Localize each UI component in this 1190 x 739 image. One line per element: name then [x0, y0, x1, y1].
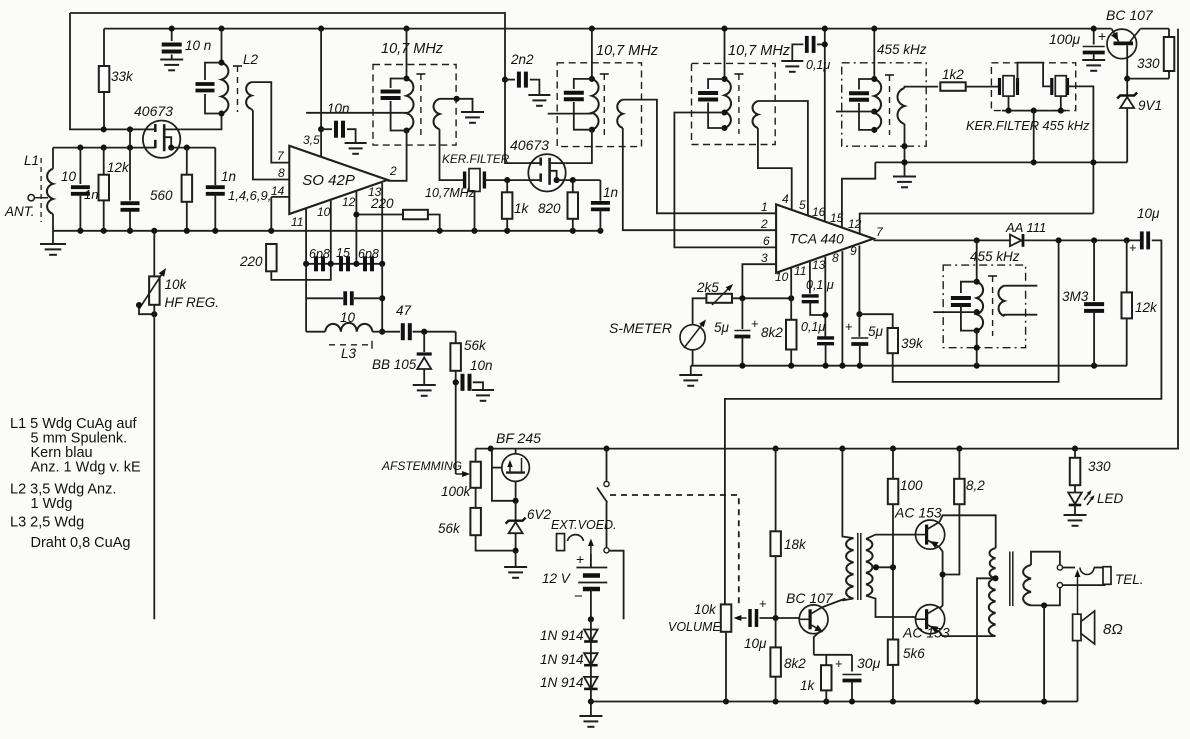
inductor IFT3 primary — [725, 79, 732, 128]
resistor 18k — [770, 531, 781, 556]
wire 10n decoupling lead — [171, 29, 173, 41]
label pin 10 tca — [775, 270, 789, 284]
wire 100 column — [892, 449, 894, 479]
svg-text:1k2: 1k2 — [942, 67, 964, 82]
capacitor 10u det — [1142, 231, 1148, 249]
svg-text:8k2: 8k2 — [761, 325, 783, 340]
transistor BC107 regulator — [1107, 29, 1141, 59]
svg-text:13: 13 — [812, 258, 826, 272]
ground IFT1 secondary — [461, 110, 484, 123]
arrow AFSTEMMING — [456, 471, 470, 477]
svg-text:2: 2 — [389, 164, 397, 178]
label 100 — [900, 478, 923, 493]
wire 1n third top — [599, 180, 601, 201]
wire pin9 riser — [858, 246, 860, 337]
capacitor 3M3 — [1084, 304, 1104, 311]
svg-text:3: 3 — [761, 251, 768, 265]
junction 10n tap — [453, 379, 459, 385]
label 0,1u Vcc — [806, 58, 830, 72]
resistor 100 — [888, 479, 899, 504]
capacitor 1n input — [121, 203, 140, 210]
svg-text:10,7MHz: 10,7MHz — [425, 186, 476, 200]
core IFT1 — [416, 74, 425, 136]
label 18k — [784, 537, 807, 552]
resistor 8k2 smeter — [786, 320, 797, 350]
battery 12V — [574, 551, 607, 619]
ceramic filter 10.7MHz — [465, 169, 485, 192]
jack TEL break contact — [1080, 568, 1094, 575]
resistor 330 led — [1070, 458, 1081, 485]
junction zener top — [1124, 76, 1130, 82]
label 10,7MHz second — [596, 43, 659, 59]
junction battery bottom — [588, 616, 594, 622]
wire pin14 lead — [271, 196, 289, 198]
potentiometer 2k5 — [706, 294, 732, 303]
ground 455 secondary — [893, 165, 916, 188]
ground under 10n osc — [472, 388, 494, 401]
label 0,1u second — [801, 320, 825, 334]
svg-text:AFSTEMMING: AFSTEMMING — [381, 459, 462, 473]
potentiometer 100k — [470, 462, 481, 488]
junction filter bottoms — [1005, 108, 1063, 114]
wire HF pot top — [153, 231, 155, 277]
wire filter1 out — [484, 179, 530, 181]
wire 820 top — [572, 180, 574, 192]
label 10,7MHz third — [728, 43, 791, 59]
label TEL. — [1115, 572, 1144, 587]
core output transformer — [1010, 552, 1013, 607]
capacitor 0,1u Vcc — [807, 36, 814, 53]
wire IFT2 tap — [548, 113, 592, 115]
svg-text:−: − — [574, 588, 583, 605]
svg-text:4: 4 — [782, 192, 789, 206]
wire BC107 collector segment — [1141, 28, 1170, 30]
label 1N914 c — [540, 675, 584, 690]
label 8k2 smeter — [761, 325, 783, 340]
transistor BF245 — [502, 454, 530, 482]
resistor 5k6 — [888, 640, 899, 665]
IF can 10.7MHz second — [557, 63, 641, 147]
label AFSTEMMING — [381, 459, 462, 473]
wire IFT2 cap loop — [574, 79, 592, 89]
label pin 3 5 — [303, 133, 320, 147]
svg-text:10: 10 — [317, 205, 331, 219]
svg-text:330: 330 — [1137, 56, 1160, 71]
wire diode chain — [590, 619, 592, 701]
svg-text:12: 12 — [342, 195, 356, 209]
wire 1k2 to filter — [966, 86, 1000, 88]
wire pin16 riser — [824, 29, 826, 223]
wire Vcc bus — [104, 28, 1112, 30]
wire 1n first lead — [129, 129, 131, 200]
svg-text:1,4,6,9,: 1,4,6,9, — [228, 188, 271, 203]
inductor driver secondary — [866, 539, 873, 596]
svg-text:5μ: 5μ — [868, 324, 884, 339]
label 0,1 first — [806, 278, 834, 292]
svg-text:2k5: 2k5 — [696, 280, 719, 295]
wire drain row — [566, 179, 601, 181]
wire SO42P out — [388, 131, 407, 181]
resistor 12k — [99, 175, 110, 201]
junction 3,5 riser — [318, 126, 324, 132]
legend L1 line2 — [31, 431, 128, 447]
wire pin9 to 39k — [859, 314, 892, 328]
inductor 455 secondary — [897, 88, 904, 124]
label 8k2 audio — [784, 656, 806, 671]
label pin 7 SO42P — [277, 149, 285, 163]
wire detector right — [1025, 239, 1141, 241]
legend L1 line3 — [31, 445, 93, 461]
svg-text:Anz. 1 Wdg v. kE: Anz. 1 Wdg v. kE — [31, 460, 141, 476]
label 40673 second — [510, 137, 549, 153]
wire 5k6 bottom — [892, 665, 894, 702]
legend L3 line1 — [10, 515, 84, 531]
svg-text:10: 10 — [61, 169, 77, 184]
resistor 330 reg — [1164, 37, 1175, 71]
wire pin15 path — [842, 162, 875, 229]
IF can 455kHz second — [943, 265, 1025, 348]
wire 1k bottom — [506, 219, 508, 231]
svg-text:10k: 10k — [165, 277, 188, 292]
wire IFT1 sec top to ground — [440, 99, 473, 110]
junction 2k5 node — [739, 295, 794, 301]
wire L2 primary top to Vcc — [221, 29, 223, 63]
svg-text:10n: 10n — [470, 358, 493, 373]
label pins 1 4 6 9 — [228, 188, 271, 203]
svg-text:220: 220 — [370, 196, 394, 211]
resistor 820 — [568, 192, 579, 219]
svg-text:56k: 56k — [464, 338, 487, 353]
wire 47 to varicap node — [413, 331, 456, 333]
svg-text:560: 560 — [150, 188, 173, 203]
wire volume bottom — [725, 632, 727, 702]
wire pin10 riser — [790, 268, 792, 298]
resistor 56k tuning — [470, 508, 481, 535]
svg-text:KER.FILTER 455 kHz: KER.FILTER 455 kHz — [966, 118, 1090, 133]
capacitor 10 osc — [345, 291, 352, 305]
svg-text:455 kHz: 455 kHz — [877, 42, 927, 57]
wire 2n2 stub — [505, 79, 515, 81]
potentiometer 10k VOLUME — [721, 604, 732, 631]
resistor 12k — [1122, 292, 1133, 318]
ceramic resonator b — [1052, 76, 1068, 96]
wire osc row2 right — [354, 297, 382, 299]
wire L3 row right — [372, 331, 382, 333]
wire L3 row left — [306, 331, 325, 333]
wire IFT2 sec top to pin1 — [623, 100, 776, 214]
svg-text:5k6: 5k6 — [903, 646, 925, 661]
wire 5u agc bottom — [859, 345, 861, 366]
label 1k — [514, 201, 530, 216]
wire L2 cap loop bottom — [205, 94, 222, 114]
wire zener to wire A — [1126, 108, 1128, 162]
wire 2k5 node — [732, 297, 791, 299]
label pin 12 SO42P — [342, 195, 356, 209]
wire IFT1 cap loop — [391, 79, 407, 89]
wire 10n osc to ground — [473, 382, 483, 388]
svg-text:8k2: 8k2 — [784, 656, 806, 671]
label VOLUME — [668, 620, 721, 634]
resistor 1k mixer2 — [502, 192, 513, 219]
IF can 10.7MHz first — [373, 65, 456, 146]
label pin 8 SO42P — [278, 166, 285, 180]
svg-text:3M3: 3M3 — [1062, 289, 1089, 304]
resistor 39k — [888, 328, 899, 353]
label 1n gate2 — [221, 169, 236, 184]
wire IFT3 tap to pin6 — [674, 113, 776, 248]
wire 5u1 bottom — [741, 337, 743, 366]
wire IFT3 sec bottom to pin4 — [758, 128, 792, 210]
wire 10n mixer to ground — [347, 129, 356, 141]
diode 1N914 b — [584, 653, 598, 665]
svg-text:11: 11 — [291, 215, 303, 229]
junction 0,1 node — [822, 312, 828, 318]
wire filter1 bottom — [474, 191, 476, 230]
svg-text:10,7 MHz: 10,7 MHz — [728, 43, 791, 59]
speaker 8 ohm — [1073, 611, 1095, 644]
label plus 5u smeter — [751, 316, 759, 331]
wire 8,2 to emitters — [943, 504, 960, 574]
inductor L3 — [325, 323, 372, 332]
label 1n if — [603, 185, 618, 200]
wire node D drop — [381, 264, 383, 332]
svg-text:10 n: 10 n — [185, 38, 211, 53]
resistor 56k osc — [450, 343, 461, 371]
arrow HF REG wiper — [139, 268, 166, 309]
wire HF wiper loop — [139, 306, 154, 314]
wire 1k audio bottom — [825, 690, 827, 701]
resistor 560 — [182, 175, 193, 202]
capacitor 10u volume — [750, 609, 757, 627]
svg-text:8,2: 8,2 — [966, 478, 985, 493]
resistor 1k audio — [821, 665, 832, 690]
wire 1n first bottom — [129, 210, 131, 231]
label 560 — [150, 188, 173, 203]
wire 8k2 smeter bottom — [790, 350, 792, 366]
wire 30u top — [851, 655, 853, 672]
label 40673 first — [134, 103, 173, 119]
wire 2n2 to ground — [530, 80, 540, 93]
label pin 14 SO42P — [271, 184, 285, 198]
wire 455 tap — [836, 111, 874, 113]
label pin 15 — [830, 211, 844, 225]
svg-text:2n2: 2n2 — [510, 52, 534, 67]
wire +12V rail — [476, 29, 1178, 449]
svg-text:1 Wdg: 1 Wdg — [31, 496, 73, 512]
wire osc caps row — [306, 263, 382, 265]
wire 12k bottom — [103, 200, 105, 230]
label pin 6 — [763, 234, 770, 248]
svg-text:SO 42P: SO 42P — [302, 172, 355, 189]
svg-text:1n: 1n — [221, 169, 236, 184]
svg-text:39k: 39k — [901, 336, 924, 351]
label AC 153 lower — [902, 625, 950, 641]
meter S-METER — [680, 320, 706, 350]
label 12V — [542, 571, 572, 586]
inductor quad secondary — [998, 286, 1004, 316]
diode zener 9V1 — [1117, 93, 1137, 109]
junction pin9 node — [856, 311, 862, 317]
junction 455 primary — [871, 76, 877, 133]
wire 330 to led — [1074, 485, 1076, 492]
jack TEL lower contact — [1057, 583, 1062, 588]
capacitor quad tank — [951, 298, 971, 305]
wire IFT2 sec bottom to pin2 — [623, 128, 776, 230]
capacitor 15 — [341, 256, 348, 271]
capacitor 10n osc — [463, 374, 470, 391]
capacitor 10 — [71, 187, 90, 194]
wire IFT1 sec bottom to filter — [440, 129, 464, 180]
wire pin 3,5 riser — [320, 29, 322, 158]
svg-text:820: 820 — [538, 201, 561, 216]
wire coll1 path — [939, 515, 995, 548]
label 6p8 a — [309, 247, 330, 261]
label 8,2 — [966, 478, 985, 493]
wire 0,1u stub — [817, 43, 825, 45]
inductor quad primary — [977, 282, 983, 331]
wire 56k to tuning line — [455, 371, 457, 474]
wire 1k audio top — [825, 655, 827, 665]
label BB 105 — [372, 357, 417, 372]
svg-text:VOLUME: VOLUME — [668, 620, 721, 634]
label pin 3 — [761, 251, 768, 265]
wire 10p to ground bus — [79, 194, 81, 231]
resistor 1k2 — [940, 82, 965, 91]
legend L1 line4 — [31, 460, 141, 476]
wire IFT2 primary to drain — [566, 130, 592, 163]
junction quad box bottom — [974, 345, 980, 351]
svg-text:BC 107: BC 107 — [786, 590, 834, 606]
svg-text:12: 12 — [848, 217, 862, 231]
svg-text:6V2: 6V2 — [527, 507, 552, 522]
inductor L1 — [47, 169, 53, 214]
wire emitter jog — [814, 654, 852, 656]
legend L2 line1 — [10, 482, 116, 498]
label 5u agc — [868, 324, 884, 339]
wire L2 cap loop — [205, 63, 222, 80]
wire L1 bottom lead — [52, 214, 54, 231]
label 12k — [107, 160, 130, 175]
wire 3M3 bottom — [1093, 311, 1095, 366]
wire speaker to rail — [1077, 641, 1079, 702]
wire quad entry — [976, 240, 978, 281]
wire LED column top — [1074, 449, 1076, 458]
svg-text:5: 5 — [799, 198, 806, 212]
svg-text:AC 153: AC 153 — [894, 505, 942, 521]
wire node A drop — [305, 264, 307, 332]
jack EXT.VOED — [557, 534, 594, 554]
svg-text:3,5: 3,5 — [303, 133, 320, 147]
svg-text:6: 6 — [763, 234, 770, 248]
label plus 100u — [1098, 28, 1106, 44]
wire switch drop — [606, 449, 608, 482]
diode 1N914 c — [584, 677, 598, 689]
inductor driver primary — [846, 538, 853, 598]
resistor 220 feedback — [403, 210, 428, 220]
wire 330 reg bottom — [1168, 71, 1170, 79]
wire varicap to ground — [423, 369, 425, 383]
wire pot100k top — [475, 449, 477, 462]
wire pin14 riser — [270, 197, 272, 231]
capacitor 10n mixer — [336, 121, 343, 138]
label 6p8 b — [358, 247, 379, 261]
junction IFT2 primary — [589, 76, 595, 133]
svg-text:L1: L1 — [24, 153, 39, 168]
wire filter bottom drop — [1033, 111, 1035, 163]
wire 12k bottom — [1126, 318, 1128, 365]
junction 6V2 bottom — [513, 548, 519, 554]
wire drv primary top — [842, 449, 853, 538]
svg-text:HF REG.: HF REG. — [165, 295, 220, 310]
wire 39k to detector — [893, 240, 1059, 382]
wire 1n second bottom — [214, 194, 216, 231]
potentiometer 10k HF REG — [149, 276, 160, 304]
label 100u — [1049, 31, 1080, 47]
label 10 — [61, 169, 77, 184]
wire 0,1u second bottom — [825, 344, 827, 366]
label pin 4 — [782, 192, 789, 206]
svg-text:10μ: 10μ — [744, 636, 767, 651]
capacitor 1n if — [591, 203, 610, 210]
IF can 455kHz first — [842, 63, 927, 146]
svg-text:8: 8 — [832, 251, 839, 265]
svg-text:8: 8 — [278, 166, 285, 180]
junction detector — [974, 237, 1130, 243]
svg-text:1N 914: 1N 914 — [540, 628, 584, 643]
diode zener 6V2 — [506, 518, 526, 534]
svg-text:100: 100 — [900, 478, 923, 493]
resistor 8k2 audio — [770, 647, 781, 676]
label pin 13 tca — [812, 258, 826, 272]
wire 12k top — [103, 148, 105, 175]
label 1N914 a — [540, 628, 584, 643]
label 6V2 — [527, 507, 552, 522]
label AA 111 — [1005, 220, 1046, 235]
capacitor L2 tank — [196, 84, 215, 91]
IF can 10.7MHz third — [692, 63, 776, 144]
label pin 5 — [799, 198, 806, 212]
jack TEL sleeve — [1103, 567, 1111, 585]
transistor AC153 upper — [916, 520, 945, 549]
svg-text:0,1 μ: 0,1 μ — [806, 278, 834, 292]
ground main audio — [579, 702, 602, 727]
wire detector — [874, 239, 1011, 241]
svg-text:AA 111: AA 111 — [1005, 220, 1046, 235]
label EXT.VOED. — [551, 518, 617, 532]
core quad — [988, 276, 997, 336]
wire 8k2 smeter leads — [790, 298, 792, 320]
wire IFT3 sec top to pin5 — [758, 101, 808, 216]
wire pin3 lead — [742, 264, 776, 298]
wire pin12 path — [860, 214, 1094, 236]
wire 100 to tap — [892, 504, 894, 567]
svg-text:16: 16 — [812, 205, 826, 219]
label 8 ohm — [1103, 621, 1123, 638]
label pin 2 — [760, 217, 768, 231]
junction L2 primary — [218, 60, 224, 117]
junction IFT1 primary — [403, 75, 409, 133]
wire tel upper — [1063, 567, 1076, 569]
svg-text:+: + — [759, 596, 767, 611]
ground agc bus — [679, 366, 702, 386]
wire ot sec bottom — [1031, 588, 1060, 606]
wire 1n third bottom — [599, 210, 601, 231]
capacitor IFT3 tank — [698, 93, 718, 100]
wire quad to agc bus — [976, 331, 978, 366]
wire 10u to base — [760, 617, 800, 619]
transistor 40673 second mixer — [528, 154, 565, 191]
wire pin12 riser — [355, 191, 357, 263]
